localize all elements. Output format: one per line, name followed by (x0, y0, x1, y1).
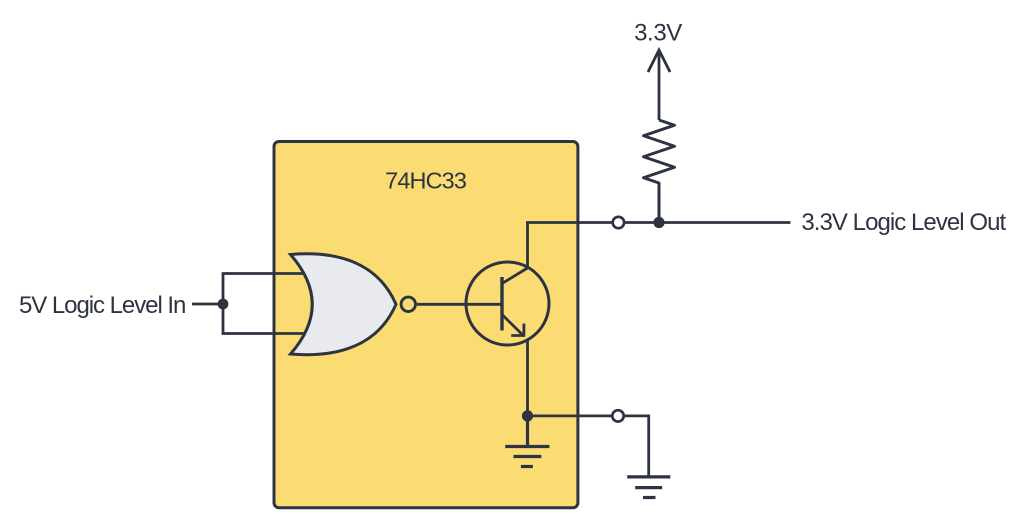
wire ground horizontal (528, 414, 649, 417)
wire emitter vertical (526, 340, 529, 416)
ground GND2 outer (627, 477, 670, 498)
resistor R1 (644, 120, 675, 223)
svg-text:5V Logic Level In: 5V Logic Level In (19, 292, 185, 319)
wire to 3.3V arrow (658, 50, 661, 120)
wire output horizontal (526, 221, 790, 224)
wire ground down (647, 415, 650, 477)
wire input branch top (222, 272, 318, 275)
wire bubble to transistor base (417, 303, 502, 306)
node output junction (653, 217, 664, 228)
NOR gate output bubble (401, 297, 415, 311)
wire input branch vertical (222, 274, 225, 334)
svg-text:74HC33: 74HC33 (385, 168, 467, 194)
transistor Q1 (466, 262, 549, 345)
node input junction (218, 299, 229, 310)
power arrow 3.3V (648, 50, 670, 72)
wire collector vertical (526, 223, 529, 269)
pin ground open circle (612, 410, 623, 421)
ground GND1 inner (505, 416, 549, 467)
NOR gate U1A body (291, 254, 397, 355)
wire input stub (192, 303, 223, 306)
pin output open circle (613, 217, 624, 228)
node emitter junction (522, 410, 533, 421)
wire input branch bottom (222, 332, 318, 335)
svg-text:3.3V: 3.3V (634, 20, 682, 47)
IC body U1 74HC33 (274, 142, 578, 508)
svg-text:3.3V Logic Level Out: 3.3V Logic Level Out (801, 209, 1006, 236)
